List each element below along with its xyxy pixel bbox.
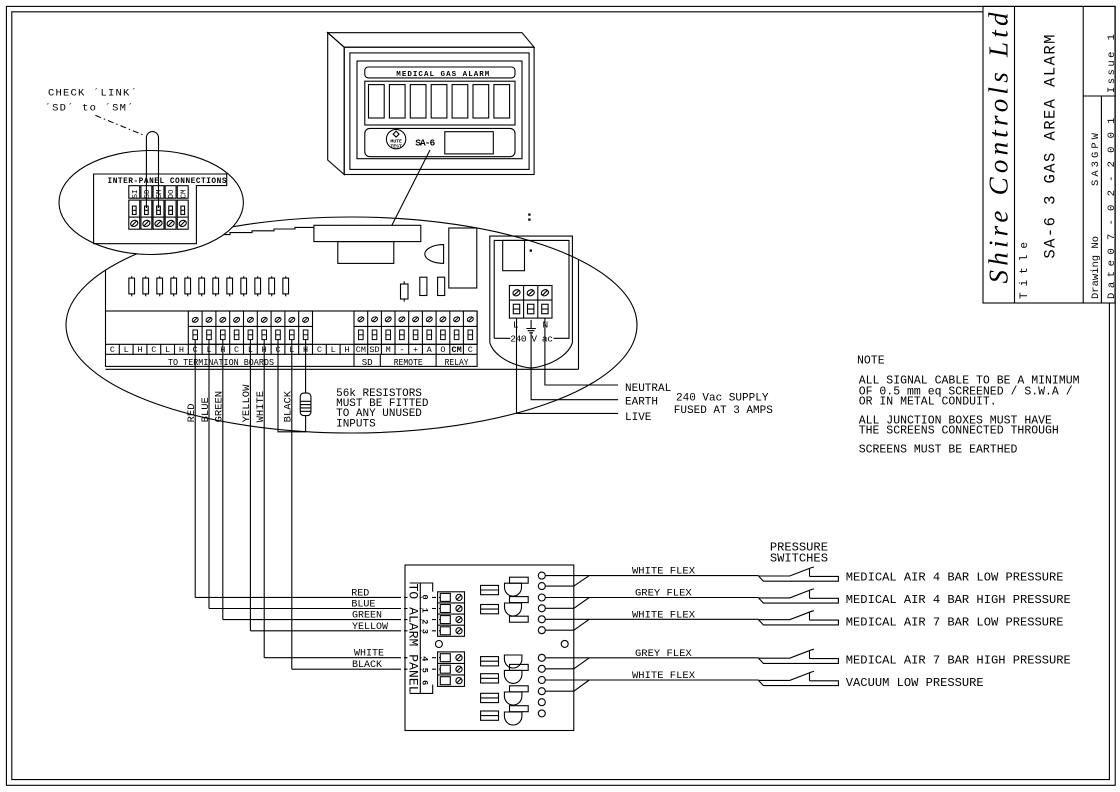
ALARM PANEL 3D VIEW	[328, 33, 534, 175]
flex wire pair 1	[545, 576, 758, 587]
svg-text:BLUE: BLUE	[351, 600, 375, 611]
supply wire N	[545, 318, 618, 385]
svg-text:L: L	[165, 345, 170, 355]
svg-text:RELAY: RELAY	[445, 357, 469, 368]
svg-text:240 Vac SUPPLY: 240 Vac SUPPLY	[676, 392, 769, 404]
terminal labels CLH	[110, 345, 350, 355]
flex wire pair 4	[545, 658, 758, 669]
window 4	[431, 85, 447, 118]
svg-text:-: -	[399, 345, 404, 355]
svg-text:YELLOW: YELLOW	[241, 384, 253, 423]
wire GREEN vertical	[222, 340, 224, 620]
svg-text:VACUUM LOW PRESSURE: VACUUM LOW PRESSURE	[846, 676, 984, 690]
svg-text:BLACK: BLACK	[352, 660, 382, 671]
svg-text:MEDICAL AIR 7 BAR LOW PRESSURE: MEDICAL AIR 7 BAR LOW PRESSURE	[846, 616, 1064, 630]
svg-text:WHITE: WHITE	[255, 391, 267, 423]
board left edge	[105, 271, 107, 312]
svg-text:BLACK: BLACK	[283, 390, 295, 422]
svg-text:WHITE FLEX: WHITE FLEX	[632, 670, 696, 682]
panel windows box	[365, 81, 515, 125]
svg-text:NOTE: NOTE	[857, 355, 885, 368]
mains clamp terminals	[513, 304, 519, 314]
fuse F4	[481, 674, 499, 683]
sounder dome B2	[504, 670, 522, 683]
fuse F5	[481, 693, 499, 702]
svg-text:OR IN METAL CONDUIT.: OR IN METAL CONDUIT.	[859, 395, 997, 408]
sounder dome B4	[504, 712, 522, 725]
leader dash-dot line	[95, 115, 143, 135]
svg-text:C: C	[234, 345, 239, 355]
svg-text:INPUTS: INPUTS	[336, 418, 376, 430]
svg-text:5: 5	[420, 668, 430, 673]
svg-text:1: 1	[420, 608, 430, 613]
svg-text:´SD´ to ´SM´: ´SD´ to ´SM´	[45, 101, 135, 114]
svg-text:CM: CM	[356, 345, 366, 355]
svg-text:EARTH: EARTH	[625, 396, 658, 408]
svg-text:TO TERMINATION BOARDS: TO TERMINATION BOARDS	[168, 357, 274, 368]
wire GREEN horizontal	[223, 619, 397, 621]
group row dividers	[354, 354, 436, 366]
psu small rect	[503, 240, 525, 270]
panel display area	[357, 61, 522, 159]
text mask under rotated label	[408, 584, 420, 694]
supply wire L	[517, 318, 619, 413]
svg-text:GREY FLEX: GREY FLEX	[635, 648, 692, 660]
inter-panel pin labels SI SD SM DO CM	[132, 189, 188, 199]
switch SW3	[759, 611, 839, 625]
svg-text:TO ALARM PANEL: TO ALARM PANEL	[406, 584, 421, 694]
svg-text:RED: RED	[186, 403, 198, 422]
sounder dome B3	[504, 692, 522, 705]
svg-text:SCREENS MUST BE EARTHED: SCREENS MUST BE EARTHED	[859, 443, 1018, 456]
svg-text:H: H	[344, 345, 349, 355]
fuse F6	[481, 711, 499, 720]
resistor 56k body	[300, 393, 311, 416]
panel inner bezel	[350, 53, 529, 169]
svg-text:Title: Title	[1019, 242, 1031, 299]
svg-text:WHITE FLEX: WHITE FLEX	[632, 566, 696, 578]
svg-text:L: L	[124, 345, 129, 355]
svg-text:SD: SD	[362, 357, 373, 368]
eyelet circles bottom group	[538, 654, 545, 661]
svg-text:WHITE FLEX: WHITE FLEX	[632, 609, 696, 621]
svg-text:H: H	[137, 345, 142, 355]
connector socket wide	[314, 225, 421, 241]
wire BLACK vertical	[291, 340, 293, 670]
svg-text:MEDICAL AIR 4 BAR LOW PRESSURE: MEDICAL AIR 4 BAR LOW PRESSURE	[846, 570, 1064, 584]
cable gland bell right	[539, 343, 573, 367]
svg-text:2: 2	[420, 619, 430, 624]
svg-text:SM: SM	[156, 189, 164, 199]
WIRES FROM STRIP	[195, 340, 311, 670]
link wire loop SD to SM	[146, 132, 158, 208]
fuse F2	[481, 605, 499, 614]
title block outline	[983, 6, 1115, 303]
panel control bar	[365, 128, 515, 156]
wire WHITE horizontal	[264, 657, 397, 659]
svg-text:TEST: TEST	[390, 143, 402, 149]
panel left face	[328, 33, 345, 175]
supply wire E	[531, 333, 618, 400]
svg-text:+: +	[413, 345, 418, 355]
mounting hole right	[561, 640, 568, 647]
JUNCTION BOX	[405, 565, 574, 731]
button diamond	[393, 131, 399, 137]
svg-text:L: L	[331, 345, 336, 355]
pin numbers rotated	[420, 595, 430, 686]
svg-text:SA3GPW: SA3GPW	[1090, 132, 1102, 186]
right box cell dividers	[368, 311, 464, 344]
clamp terminals middle group	[193, 330, 308, 340]
svg-text:MEDICAL GAS ALARM: MEDICAL GAS ALARM	[396, 71, 489, 79]
board top edge stepped	[208, 227, 314, 243]
label row top line	[106, 343, 478, 345]
svg-text:MEDICAL AIR 4 BAR HIGH PRESSUR: MEDICAL AIR 4 BAR HIGH PRESSURE	[846, 593, 1071, 607]
pointer line from SA-6 to board	[392, 150, 430, 225]
tall component rect	[449, 228, 477, 288]
svg-text:Date: Date	[1106, 260, 1118, 299]
svg-text:LIVE: LIVE	[625, 412, 652, 424]
screw heads right group	[357, 316, 474, 323]
svg-text:3: 3	[420, 629, 430, 634]
svg-text:C: C	[151, 345, 156, 355]
mains screws	[512, 289, 521, 297]
fuse F3	[481, 657, 499, 666]
svg-text:CHECK ´LINK´: CHECK ´LINK´	[48, 86, 138, 99]
sounder bar B1	[510, 664, 529, 670]
panel top face	[328, 33, 534, 48]
switch SW2	[759, 589, 839, 603]
svg-text:07-02-2001: 07-02-2001	[1106, 118, 1118, 255]
svg-text:MEDICAL AIR 7 BAR HIGH PRESSUR: MEDICAL AIR 7 BAR HIGH PRESSURE	[846, 654, 1071, 668]
sounder bar 1	[510, 577, 529, 583]
component rect below socket	[338, 242, 394, 264]
svg-text:M: M	[386, 345, 391, 355]
wire BLACK horizontal	[292, 668, 397, 670]
resistor stripes	[300, 401, 311, 411]
svg-text:GREEN: GREEN	[352, 611, 382, 622]
terminal labels right group	[356, 345, 473, 355]
inter-panel clamp terminals	[132, 206, 136, 214]
small socket B	[438, 277, 445, 295]
unused input link wire	[278, 340, 306, 432]
screw heads middle group	[191, 316, 309, 323]
mute-test button	[386, 129, 405, 148]
wire BLUE vertical	[208, 340, 210, 609]
PSU SECTION	[490, 236, 573, 368]
small socket A	[420, 277, 427, 295]
blank label window	[445, 132, 494, 154]
svg-text:C: C	[110, 345, 115, 355]
svg-text:GREEN: GREEN	[214, 391, 226, 423]
wire WHITE vertical	[263, 340, 265, 658]
window 6	[473, 85, 489, 118]
svg-text:Issue 1: Issue 1	[1106, 34, 1118, 93]
middle hardware box	[188, 311, 312, 344]
svg-text:0: 0	[420, 595, 430, 600]
wire RED vertical	[194, 340, 196, 598]
middle box cell dividers	[202, 311, 299, 344]
window 7	[494, 85, 510, 118]
board bottom edge	[106, 368, 579, 370]
psu inner outline	[494, 240, 569, 338]
svg-text:H: H	[179, 345, 184, 355]
svg-text:CM: CM	[451, 345, 461, 355]
inter-panel box outline	[94, 174, 227, 244]
NOTE TEXT BLOCK	[857, 355, 1080, 457]
label row cell dividers	[119, 344, 463, 354]
window 2	[389, 85, 405, 118]
SMALL ELLIPSE (inter-panel connections)	[59, 151, 243, 255]
svg-text:CM: CM	[180, 189, 188, 199]
svg-text:A: A	[427, 345, 433, 355]
svg-text:RED: RED	[351, 588, 369, 599]
svg-text:SA-6: SA-6	[415, 138, 435, 149]
fuse component with leads	[401, 284, 409, 299]
earth symbol	[526, 320, 536, 333]
sounder bar B2	[510, 686, 529, 692]
sounder bar 2	[510, 597, 529, 603]
panel title bar	[365, 67, 515, 78]
stray dots	[529, 214, 530, 215]
wire YELLOW vertical	[249, 340, 251, 631]
svg-text:O: O	[440, 345, 445, 355]
TITLEBLOCK	[983, 6, 1115, 303]
flex wire pair 5	[545, 680, 758, 691]
svg-text:FUSED AT 3 AMPS: FUSED AT 3 AMPS	[674, 405, 773, 417]
svg-text:4: 4	[420, 656, 430, 661]
MAIN TERMINAL STRIP	[106, 311, 478, 366]
switch SW5	[759, 671, 839, 685]
psu outer outline	[490, 236, 573, 343]
MAIN BOARD inside big ellipse	[106, 225, 579, 369]
strip outer box	[106, 311, 478, 366]
wire YELLOW horizontal	[250, 630, 397, 632]
svg-text:SI: SI	[132, 189, 140, 198]
svg-text:NEUTRAL: NEUTRAL	[625, 383, 671, 395]
svg-text:SA-6 3 GAS AREA ALARM: SA-6 3 GAS AREA ALARM	[1042, 35, 1060, 259]
svg-text:SWITCHES: SWITCHES	[770, 551, 828, 565]
window 3	[410, 85, 426, 118]
svg-text:GREY FLEX: GREY FLEX	[635, 588, 692, 600]
jbox terminal block 2	[438, 652, 465, 687]
svg-text:DO: DO	[168, 189, 176, 199]
svg-text:BLUE: BLUE	[200, 397, 212, 422]
inter-panel screws	[130, 219, 139, 227]
cable gland bell left	[490, 343, 539, 368]
inter-panel grid	[129, 186, 188, 230]
to alarm panel bracket	[410, 583, 433, 693]
svg-text:C: C	[317, 345, 322, 355]
window 1	[369, 85, 385, 118]
sounder dome 1	[505, 583, 522, 596]
sounder dome 2	[505, 603, 522, 616]
svg-text:REMOTE: REMOTE	[394, 357, 423, 368]
switch SW4	[759, 649, 839, 663]
svg-text:YELLOW: YELLOW	[352, 622, 388, 633]
sounder bar B3	[510, 706, 529, 712]
panel front face	[344, 47, 534, 174]
wire RED horizontal	[195, 596, 397, 598]
row of 12 pin sockets	[129, 214, 532, 302]
eyelet circles top group	[538, 572, 545, 579]
sounder bar 3	[510, 616, 529, 622]
D-shaped component	[425, 245, 444, 264]
mounting hole left	[435, 641, 442, 648]
window 5	[452, 85, 468, 118]
clamp terminals right group	[359, 330, 473, 340]
fuse F1	[481, 585, 499, 594]
label row bottom line	[106, 353, 478, 355]
svg-text:THE SCREENS CONNECTED THROUGH: THE SCREENS CONNECTED THROUGH	[859, 425, 1059, 438]
junction box outline	[405, 565, 574, 731]
svg-text:6: 6	[420, 680, 430, 685]
BIG ELLIPSE (main board magnified view)	[66, 217, 637, 433]
sounder dome B1	[504, 655, 522, 668]
svg-text:SD: SD	[144, 189, 152, 199]
jbox terminal block 1	[438, 592, 465, 637]
svg-text:WHITE: WHITE	[354, 649, 384, 660]
switch SW1	[759, 567, 839, 581]
board right edge	[578, 260, 580, 370]
wire BLUE horizontal	[209, 608, 397, 610]
svg-text:C: C	[468, 345, 473, 355]
svg-text:SD: SD	[369, 345, 379, 355]
mains terminal block	[509, 286, 552, 319]
svg-text:Shire Controls Ltd: Shire Controls Ltd	[984, 12, 1014, 284]
svg-text:Drawing No: Drawing No	[1090, 236, 1102, 299]
svg-text:INTER-PANEL CONNECTIONS: INTER-PANEL CONNECTIONS	[108, 178, 227, 186]
flex wire pair 3	[545, 619, 758, 630]
flex wire pair 2	[545, 598, 758, 609]
right hardware box	[354, 311, 477, 344]
